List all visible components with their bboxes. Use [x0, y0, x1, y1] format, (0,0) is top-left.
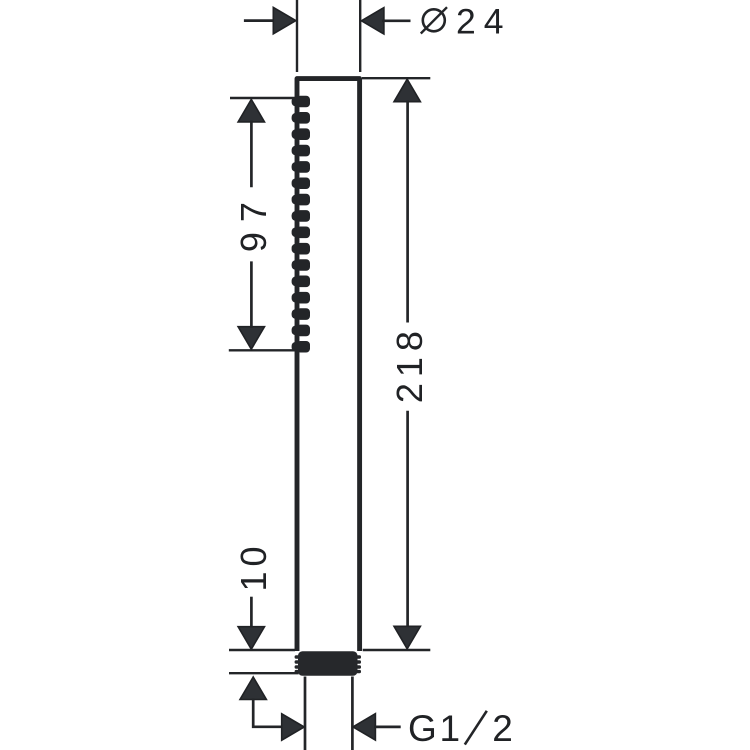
svg-text:97: 97	[233, 192, 274, 252]
dimension label G1/2 slash	[465, 711, 487, 745]
dimension 10 extension line lower	[229, 672, 299, 674]
svg-text:24: 24	[456, 2, 512, 42]
dimension 218 line upper segment	[406, 101, 409, 323]
dimension Ø24 extension line left	[296, 0, 298, 72]
dimension 10 up arrowhead	[240, 677, 266, 700]
dimension G1/2 right-pointing arrowhead	[282, 714, 305, 740]
dimension 97 up arrowhead	[238, 99, 264, 122]
dimension Ø24 extension line right	[359, 0, 361, 72]
shower handle body outline	[297, 79, 360, 651]
dimension G1/2 left-pointing arrowhead	[353, 714, 376, 740]
knurled connector nut	[295, 651, 361, 676]
dimension 218 down arrowhead	[394, 626, 420, 649]
dimension 218 line lower segment	[406, 411, 409, 627]
dimension 218 up arrowhead	[394, 79, 420, 102]
dimension 97 down arrowhead	[238, 327, 264, 350]
dimension 218 extension line top	[362, 77, 430, 79]
dimension 97 line lower segment	[250, 261, 253, 328]
inlet pipe right line	[351, 677, 354, 750]
dimension 10 line segment	[250, 597, 253, 628]
dimension Ø24 left arrowhead	[273, 7, 296, 33]
dimension 218 extension line bottom	[363, 649, 431, 651]
dimension Ø24 right leader line	[382, 19, 411, 22]
dimension G1/2 leader line	[374, 726, 401, 729]
svg-text:1: 1	[440, 708, 461, 749]
inlet pipe left line	[304, 677, 307, 750]
dimension 10 / G1/2 leader elbow	[253, 699, 283, 727]
spray nozzle strip (16 teeth on left face)	[292, 96, 310, 353]
dimension 97 line upper segment	[250, 121, 253, 188]
dimension 97 extension line top	[230, 97, 296, 99]
dimension 97 extension line bottom	[229, 349, 302, 351]
dimension label Ø24 diameter symbol circle	[423, 9, 445, 31]
dimension Ø24 left leader line	[244, 19, 275, 22]
dimension 10 extension line upper	[229, 649, 295, 651]
dimension label Ø24 diameter symbol slash	[421, 7, 447, 33]
dimension Ø24 right arrowhead	[361, 8, 384, 34]
svg-text:10: 10	[233, 541, 274, 591]
svg-text:G: G	[408, 708, 437, 749]
svg-text:2: 2	[492, 708, 513, 749]
dimension 10 down arrowhead	[238, 627, 264, 650]
svg-text:218: 218	[389, 325, 430, 403]
